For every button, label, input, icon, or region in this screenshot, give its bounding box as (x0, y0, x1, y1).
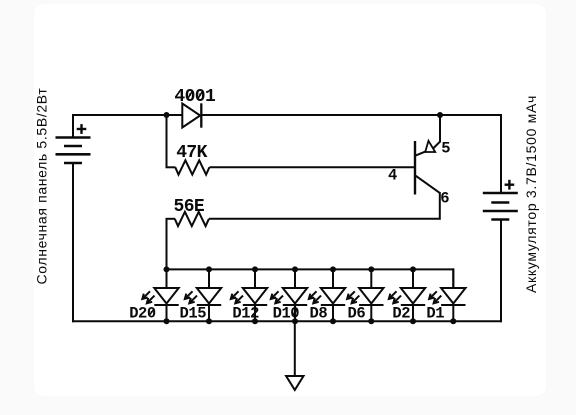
svg-text:D20: D20 (129, 305, 156, 323)
svg-text:D6: D6 (348, 305, 366, 323)
svg-text:4001: 4001 (174, 87, 216, 107)
svg-text:4: 4 (388, 166, 397, 184)
svg-text:5: 5 (441, 140, 450, 158)
svg-text:D10: D10 (273, 305, 300, 323)
svg-text:D2: D2 (392, 305, 410, 323)
svg-text:D12: D12 (232, 305, 259, 323)
svg-text:47K: 47K (176, 143, 207, 163)
svg-text:D1: D1 (426, 305, 444, 323)
svg-text:D8: D8 (310, 305, 328, 323)
svg-text:6: 6 (440, 189, 449, 207)
svg-text:Солнечная панель 5.5В/2Вт: Солнечная панель 5.5В/2Вт (34, 88, 50, 285)
svg-text:D15: D15 (180, 305, 207, 323)
svg-text:Аккумулятор 3.7В/1500 мАч: Аккумулятор 3.7В/1500 мАч (523, 95, 539, 293)
svg-text:56E: 56E (174, 197, 205, 217)
